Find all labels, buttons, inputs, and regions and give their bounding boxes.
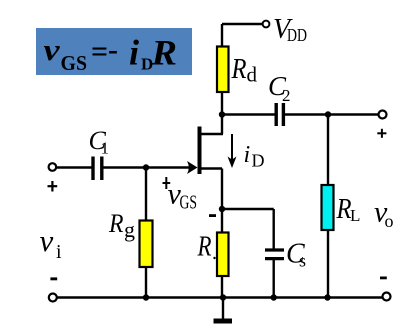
label vi [40, 223, 63, 263]
capacitor Cs [265, 250, 284, 259]
label RL [336, 193, 361, 225]
formula box background [36, 28, 192, 75]
svg-text:R: R [108, 209, 124, 238]
svg-text:g: g [124, 217, 135, 242]
transistor Q1 channel bar [198, 127, 202, 175]
wire Rd to drain node [221, 92, 223, 115]
formula text vGS = -iD R [44, 32, 178, 75]
terminal output minus [383, 293, 391, 301]
label minus vGS [209, 214, 216, 217]
terminal input minus [49, 294, 57, 302]
node rail Rs [220, 294, 226, 300]
svg-text:v: v [40, 223, 54, 258]
svg-text:D: D [252, 150, 265, 170]
svg-text:R: R [197, 231, 212, 263]
label minus vi [50, 277, 57, 280]
svg-text:GS: GS [61, 51, 88, 75]
svg-text:1: 1 [101, 139, 110, 158]
label plus vGS [163, 177, 171, 189]
label Rs [197, 231, 216, 263]
svg-text:s: s [299, 251, 306, 271]
resistor RL [322, 185, 334, 230]
wire C2 to output terminal [285, 113, 379, 116]
label minus vo [380, 277, 387, 280]
arrow iD [228, 134, 237, 168]
svg-text:i: i [56, 241, 62, 263]
label plus input [48, 181, 58, 192]
wire source node to Cs [222, 209, 274, 249]
wire VDD to Rd [221, 24, 223, 48]
wire VDD horizontal [222, 23, 262, 25]
node source junction [219, 206, 225, 212]
label VDD [273, 14, 307, 45]
svg-text:2: 2 [282, 86, 291, 105]
wire Rs to rail [221, 276, 223, 298]
resistor Rg [140, 221, 153, 268]
label iD [244, 142, 265, 170]
resistor Rs [217, 233, 229, 277]
label C2 [268, 71, 291, 105]
node rail Rg [143, 294, 149, 300]
terminal VDD [263, 21, 270, 28]
capacitor C2 [276, 103, 283, 126]
svg-text:i: i [244, 142, 251, 168]
arrow gate [187, 161, 198, 174]
wire C1 to gate [104, 166, 193, 168]
terminal output plus [379, 111, 387, 119]
svg-text:DD: DD [287, 25, 307, 45]
label C1 [89, 126, 110, 158]
label vo [374, 196, 394, 232]
node drain junction [219, 111, 225, 117]
wire Rg to rail [145, 267, 147, 298]
label vGS [168, 178, 198, 214]
svg-text:o: o [385, 211, 394, 231]
svg-text:d: d [247, 63, 258, 87]
wire RL to rail [327, 230, 329, 298]
terminal input plus [49, 163, 57, 171]
node rail Cs [271, 294, 277, 300]
wire bottom rail [57, 296, 383, 299]
svg-text:R: R [150, 33, 177, 73]
label Rg [108, 209, 135, 242]
wire input to C1 [57, 166, 93, 168]
node rail RL [324, 294, 330, 300]
svg-text:R: R [231, 53, 247, 85]
wire drain node to C2 [222, 113, 275, 116]
wire RL top [327, 115, 329, 187]
svg-text:GS: GS [180, 192, 198, 214]
svg-text:i: i [129, 33, 139, 73]
wire Cs to rail [273, 260, 275, 298]
svg-text:-: - [108, 33, 118, 66]
label Cs [286, 239, 306, 271]
wire source lead [200, 169, 222, 210]
label plus output [377, 129, 386, 138]
wire drain tap [200, 115, 223, 135]
svg-text:=: = [91, 35, 108, 68]
ground [214, 298, 233, 324]
resistor Rd [217, 47, 229, 93]
node gate junction [143, 164, 149, 170]
capacitor C1 [93, 157, 102, 181]
svg-text:L: L [350, 206, 360, 225]
wire source node to Rs [221, 209, 223, 233]
wire Rg top [145, 168, 147, 222]
node output junction [325, 111, 331, 117]
label Rd [231, 53, 258, 87]
svg-text:v: v [44, 32, 61, 67]
